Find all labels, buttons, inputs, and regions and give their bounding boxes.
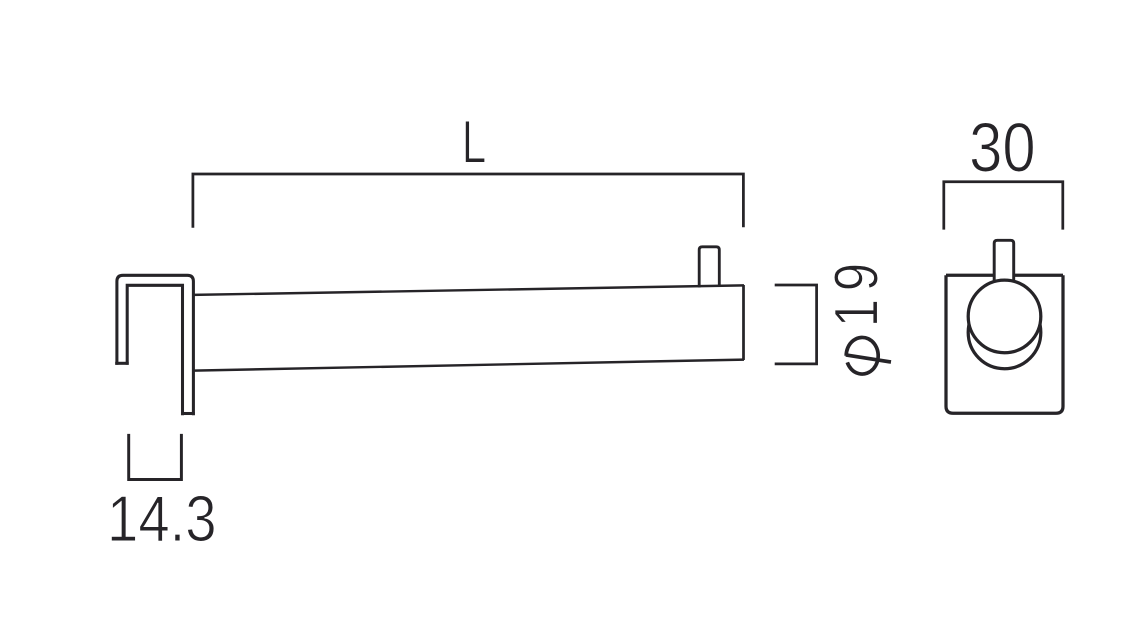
svg-text:L: L <box>462 108 487 176</box>
svg-text:1: 1 <box>823 299 892 327</box>
svg-text:30: 30 <box>969 108 1036 186</box>
svg-text:9: 9 <box>823 263 892 291</box>
svg-text:14.3: 14.3 <box>107 482 217 555</box>
